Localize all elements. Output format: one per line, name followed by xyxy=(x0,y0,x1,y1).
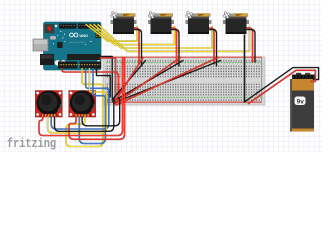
wire: servo M1 GND to breadboard column (black) xyxy=(134,30,142,67)
servo M2 xyxy=(147,10,174,34)
crystal xyxy=(50,36,56,40)
top rail holes xyxy=(106,59,262,61)
mounting holes xyxy=(55,25,58,28)
wire: joystick J1 axis to Arduino analog pin (yellow) xyxy=(48,69,107,134)
bottom rail holes xyxy=(106,99,262,101)
servo M1 xyxy=(109,10,136,34)
wire: servo M1 V+ to breadboard column (red) xyxy=(134,28,139,64)
wire: servo M4 signal, Arduino D pin to M4 (yellow) xyxy=(98,25,250,52)
bottom header xyxy=(58,62,78,69)
wire: joystick J1 axis to Arduino analog pin (blue) xyxy=(51,69,109,130)
reset button xyxy=(45,24,55,33)
wire: servo M4 V+ to breadboard column (red) xyxy=(247,28,253,62)
lower bank holes xyxy=(105,83,263,96)
wire: servo M2 V+ to breadboard column (red) xyxy=(172,28,177,64)
wire: Arduino 5V to breadboard bottom + rail (red) xyxy=(39,35,319,147)
battery BT1 9V xyxy=(290,73,316,132)
svg-text:fritzing: fritzing xyxy=(7,137,56,151)
wire: servo M2 signal, Arduino D pin to M2 (yellow) xyxy=(90,25,175,45)
wire: joystick J1 GND to breadboard - rail (black) xyxy=(55,99,114,132)
svg-text:9v: 9v xyxy=(297,98,305,105)
wire: V+ rail to servo M1 column (red diagonal) xyxy=(115,58,144,103)
logo xyxy=(70,33,74,37)
breadboard BB1 xyxy=(103,57,265,105)
upper bank holes xyxy=(105,65,263,78)
wire: rail tie at breadboard right end (gray vertical) xyxy=(261,58,263,102)
wire: servo M3 signal, Arduino D pin to M3 (yellow) xyxy=(94,25,212,49)
wire: V+ rail to servo M2 column (red diagonal) xyxy=(115,58,180,104)
wire: joystick J2 axis to Arduino analog pin (yellow) xyxy=(66,69,103,147)
servo M3 xyxy=(184,10,211,34)
wire: GND jumper into breadboard top-left down to bottom rail (black) xyxy=(92,57,112,99)
wire: joystick J2 GND to breadboard - rail (black) xyxy=(82,99,120,126)
wire: GND rail to servo M2 column (black diagonal) xyxy=(113,61,183,102)
wire: joystick J2 VCC to breadboard + rail (red) xyxy=(69,58,125,140)
wire: servo M1 signal, Arduino D pin to M1 (yellow) xyxy=(86,25,137,42)
top red rail line xyxy=(106,57,262,58)
arduino GND black to breadboard xyxy=(97,69,111,98)
bottom green line xyxy=(106,96,262,98)
USB connector xyxy=(33,39,48,51)
top green line xyxy=(106,62,262,64)
wire: servo M4 GND to breadboard column (black) xyxy=(247,30,256,63)
wire: V+ rail to servo M3 column (red diagonal) xyxy=(116,58,218,106)
Arduino Uno U1 xyxy=(33,22,101,70)
wire: servo M3 V+ to breadboard column (red) xyxy=(209,28,214,64)
ICSP header xyxy=(96,31,101,38)
wire: V+ jumper into breadboard top-left down to bottom rail (red) xyxy=(100,58,116,101)
top headers xyxy=(59,24,77,29)
power jack xyxy=(40,54,54,65)
atmega xyxy=(67,54,101,60)
wire: GND rail to servo M3 column (black diagonal) xyxy=(114,61,221,104)
svg-text:UNO: UNO xyxy=(80,34,88,38)
wire: GND rail to servo M1 column (black diagonal) xyxy=(112,61,146,101)
wire: joystick J1 VCC to breadboard + rail (red) xyxy=(39,58,123,136)
servo M4 xyxy=(222,10,249,34)
wire: servo M3 GND to breadboard column (black) xyxy=(209,30,217,67)
wire: servo M2 GND to breadboard column (black) xyxy=(172,30,180,67)
joystick J1 xyxy=(35,90,62,117)
joystick J2 xyxy=(69,90,96,117)
wire: battery BT1 positive lead to breadboard + rail (red) xyxy=(249,70,316,103)
small chip xyxy=(57,42,63,48)
bottom red rail line xyxy=(106,102,262,103)
wire: joystick J2 axis to Arduino analog pin (blue) xyxy=(79,69,105,144)
capacitors xyxy=(55,60,61,66)
servos xyxy=(109,10,249,34)
wire: servo M4 GND down to bottom rail (black vertical) xyxy=(244,35,246,102)
wire: battery BT1 negative lead to breadboard - rail (black) xyxy=(245,68,319,102)
